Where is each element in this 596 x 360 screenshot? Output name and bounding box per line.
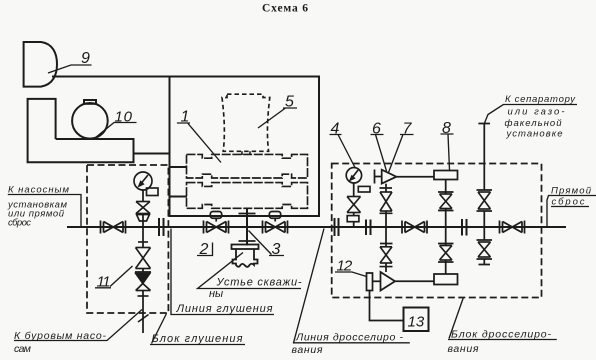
BOP lower flange bar [239,213,256,215]
valve C upper [478,192,491,209]
pressure gauge 4 [346,168,370,192]
svg-text:К насосным: К насосным [8,185,69,196]
leader kill block label [150,314,245,345]
svg-text:9: 9 [81,50,90,67]
leader 11 [95,266,133,288]
svg-text:факельной: факельной [505,118,563,129]
column A upper flange bars [380,188,393,213]
bottom blind flange bar [479,264,491,266]
wire ram stub upper [170,166,187,168]
valve C lower [478,242,491,257]
flange pair (choke box inlet) [335,218,339,236]
leader 1 [177,123,221,163]
flange pair (kill to wellhead) [159,218,164,236]
svg-text:Прямой: Прямой [551,186,592,197]
leader choke block label [448,298,557,340]
flange pair (after column B) [462,219,467,236]
valve (kill block vertical upper) [136,248,151,269]
remote control box 13 [404,308,429,332]
wire degasser outlet [134,153,170,155]
svg-text:1: 1 [181,109,190,126]
choke line rect 8 [434,171,458,180]
valve 3 with actuator [263,212,288,234]
leader 9 [48,65,92,73]
svg-text:Блок дросселиро-: Блок дросселиро- [451,329,552,341]
valve B lower [440,246,453,261]
column B lower flange bars [438,244,454,263]
leader 6 [371,135,387,172]
svg-text:11: 11 [97,273,111,290]
kill column top flange bar [138,241,148,243]
svg-text:сброс: сброс [8,217,31,228]
leader 4 [330,135,356,169]
preventer block solid box [170,77,320,217]
column C lower flange bars [477,240,493,259]
leader K nasosnym [8,195,81,228]
leader to separator [484,105,577,124]
svg-text:Устье скважи-: Устье скважи- [216,277,302,289]
svg-text:13: 13 [408,314,425,331]
choke gauge branch wires [353,183,355,227]
column B wires [445,180,447,275]
svg-text:6: 6 [372,121,381,138]
gate valve (kill block) [101,221,126,234]
flange pair (after gauge) [366,220,371,236]
valve B upper [440,194,453,209]
gate valve on main line (choke block right) [500,221,525,234]
svg-text:вания: вания [448,343,479,355]
svg-text:2: 2 [199,241,209,258]
svg-text:вания: вания [292,344,323,356]
svg-text:5: 5 [285,94,294,111]
svg-text:4: 4 [331,121,340,138]
ram preventer lower [187,183,308,209]
valve 11 (check valve, top half filled) [136,274,151,291]
adjustable choke 6/7 [375,170,435,184]
valve A lower [380,247,392,263]
wire ram stub lower [170,196,187,198]
bottom choke rect [434,274,458,285]
svg-text:К буровым насо-: К буровым насо- [14,330,107,342]
leader direct discharge [547,196,596,228]
leader 12 [335,272,367,277]
svg-text:или газо-: или газо- [508,107,565,118]
top blind flange bar [478,123,490,125]
wellhead cross flange bar [239,240,256,242]
wellhead [232,245,259,267]
leaders and underlines [8,65,596,345]
kill block dashed box [87,165,168,313]
wire top line to flare shape [53,76,170,78]
pressure gauge (kill block) [134,172,158,196]
wire choke 12 to box 13 [370,291,404,321]
column C upper flange bars [477,190,493,211]
leader wellhead label [198,253,301,289]
svg-text:ны: ны [209,288,223,300]
leader to drilling pumps [14,310,142,341]
flare shape 9 [24,42,57,87]
ram preventer 1 upper [187,154,308,178]
svg-text:7: 7 [403,121,413,138]
kill gauge branch wires [142,190,144,333]
svg-text:Схема 6: Схема 6 [262,3,308,15]
pipe break tick [138,315,149,323]
svg-text:8: 8 [442,120,451,137]
degasser unit 10 [28,99,134,162]
column B upper flange bars [438,192,454,211]
svg-text:Блок глушения: Блок глушения [152,333,243,345]
adjustable choke 12 [367,272,435,291]
valve 2 with actuator [204,212,229,234]
wire BOP to wellhead cross [246,209,248,245]
svg-text:3: 3 [272,241,281,258]
gate valve on main line (choke block left) [402,221,427,234]
svg-text:Линия глушения: Линия глушения [176,303,273,315]
svg-text:К сепаратору: К сепаратору [505,94,576,105]
leader 8 [441,134,454,170]
leader 10 [95,123,137,139]
svg-text:Линия дросселиро -: Линия дросселиро - [295,332,404,344]
leader 2 [197,243,213,256]
leader 7 [389,135,414,173]
choke block dashed box [332,164,542,298]
kill column middle flange bar [135,271,151,273]
svg-text:10: 10 [115,109,133,126]
angle valve under gauge [136,202,150,222]
svg-text:12: 12 [337,258,353,275]
kill column bottom flange bar [138,295,149,297]
leader choke line label [293,229,410,343]
column A lower flange bars [380,244,393,267]
valve A upper [380,192,392,211]
leader 5 [258,108,297,128]
svg-text:сам: сам [14,343,31,355]
column A wires [385,184,387,272]
annular bottom ticks [242,151,250,155]
leader kill line label [171,229,274,315]
leader 3 [249,231,285,256]
annular preventer 5 (dashed) [222,94,270,151]
column C wires [483,124,485,265]
svg-text:установке: установке [506,129,563,140]
angle valve under gauge 4 [347,197,361,222]
wire main horizontal pipe [68,226,565,228]
